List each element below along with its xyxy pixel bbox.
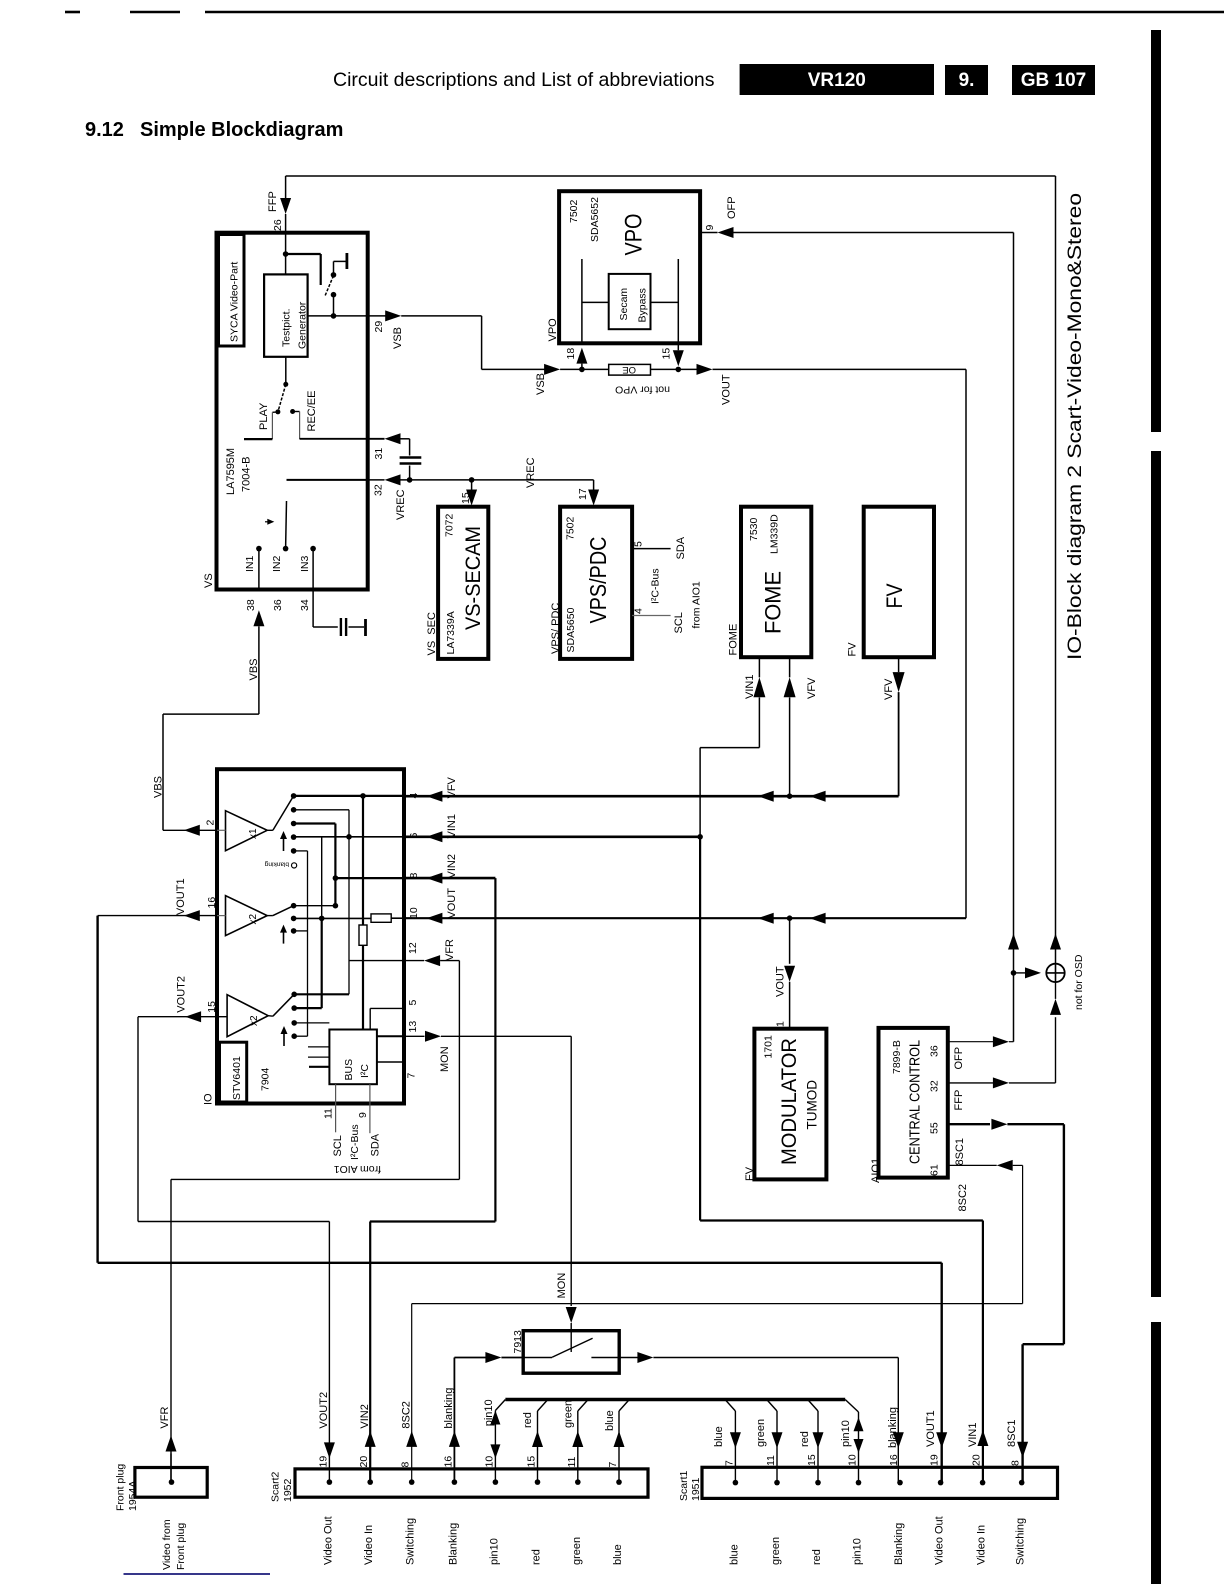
wire 8SC1 route [1007, 1124, 1064, 1482]
arrow VOUT1 down scart1 [936, 1432, 947, 1448]
wire x2l input [217, 1016, 227, 1018]
svg-text:green: green [563, 1400, 575, 1428]
contact d8 [291, 928, 297, 934]
label PLAY [258, 402, 270, 430]
node pin15-VOUT [676, 367, 682, 373]
svg-text:34: 34 [299, 599, 311, 611]
svg-text:x2: x2 [249, 1015, 260, 1026]
svg-text:19: 19 [929, 1454, 941, 1466]
wire VOUT1 route [98, 916, 942, 1483]
svg-text:20: 20 [971, 1454, 983, 1466]
scart2 pin 7 node [616, 1479, 622, 1485]
label 18 [565, 348, 577, 360]
svg-text:15: 15 [206, 1001, 218, 1013]
wire contact to VSB row [333, 295, 335, 316]
svg-text:36: 36 [929, 1045, 941, 1057]
svg-text:pin10: pin10 [840, 1420, 852, 1447]
node VOUT-MOD branch [787, 915, 793, 921]
label MON pin13 [439, 1046, 451, 1072]
wire vertical-A [362, 796, 364, 925]
wire VPS pin 4 SCL stub [632, 615, 671, 617]
svg-text:SYCA Video-Part: SYCA Video-Part [229, 262, 241, 342]
svg-text:VREC: VREC [525, 457, 537, 488]
wire FFP link [1009, 1017, 1056, 1083]
label 8SC2 cc [957, 1184, 969, 1212]
svg-text:8: 8 [1010, 1460, 1022, 1466]
svg-text:Generator: Generator [297, 301, 309, 349]
svg-text:15: 15 [526, 1456, 538, 1468]
bus rgb-pin10 line [505, 1398, 845, 1402]
scart1 pin 11 node [774, 1480, 780, 1486]
svg-text:1: 1 [775, 1021, 787, 1027]
SYCA tag box [219, 235, 245, 347]
wire cap to bar [349, 626, 365, 628]
wire IN2 to pin32 row [287, 479, 368, 481]
label scart1 pin 20 [971, 1454, 983, 1466]
svg-text:VFR: VFR [444, 939, 456, 961]
label VFV io [446, 776, 458, 798]
arrow VFV at FOME [758, 791, 774, 802]
svg-text:OFP: OFP [953, 1047, 965, 1070]
bus diag scart1 pin10 [845, 1400, 858, 1413]
label AIO1 outside [870, 1158, 882, 1183]
node d4-pin10 [319, 916, 325, 922]
svg-text:1951: 1951 [690, 1477, 702, 1501]
svg-text:VFR: VFR [159, 1407, 171, 1429]
wire pin36 to OFP [1009, 1041, 1014, 1043]
node d3-pin8 [333, 875, 339, 881]
label x2 [248, 914, 259, 925]
svg-text:11: 11 [765, 1455, 777, 1466]
switch contact upper [331, 272, 337, 278]
arrow pin55 out [991, 1119, 1007, 1130]
arrow blanking up scart2 [449, 1431, 460, 1447]
svg-text:green: green [755, 1419, 767, 1447]
svg-text:blanking: blanking [264, 861, 289, 868]
wire pin16 row [98, 915, 217, 917]
label VOUT1 io [175, 878, 187, 915]
wire vertical-A lower [362, 945, 364, 1029]
arrow MON down [566, 1307, 577, 1323]
label 10 io [408, 907, 420, 919]
amplifier x2 [226, 896, 268, 936]
wire FFP to adder [1055, 982, 1057, 999]
header badge 9. [945, 65, 988, 95]
label IN3 [299, 556, 311, 573]
label VOUT2 io [176, 976, 188, 1013]
label OE [622, 364, 636, 375]
arrow scart1 red down [813, 1432, 824, 1448]
svg-text:32: 32 [373, 484, 385, 496]
svg-text:SDA: SDA [675, 536, 687, 559]
svg-text:13: 13 [407, 1021, 419, 1033]
svg-text:Video Out: Video Out [934, 1516, 946, 1565]
svg-text:red: red [522, 1412, 534, 1428]
label scart2 pin 16 [442, 1456, 454, 1468]
label scart2 pin 8 [400, 1462, 412, 1468]
scart1 pin 15 node [815, 1480, 821, 1486]
label VS-SECAM big [461, 526, 485, 630]
label VS [203, 573, 215, 588]
label Video from [161, 1519, 173, 1570]
svg-text:Switching: Switching [405, 1518, 417, 1565]
svg-text:11: 11 [566, 1456, 578, 1467]
svg-text:11: 11 [323, 1108, 335, 1119]
arrow FFP link up [1050, 999, 1061, 1015]
svg-text:red: red [799, 1431, 811, 1447]
wire blanking out [619, 1357, 639, 1359]
label VIN1 fome [744, 675, 756, 699]
svg-text:8SC1: 8SC1 [1006, 1419, 1018, 1447]
svg-text:VOUT2: VOUT2 [318, 1392, 330, 1429]
wire VIN2 vertical [494, 878, 496, 1221]
wire VOUT vertical [965, 369, 967, 918]
adder circle not for OSD [1046, 964, 1064, 982]
svg-text:16: 16 [888, 1454, 900, 1466]
svg-text:8SC2: 8SC2 [401, 1401, 413, 1429]
svg-text:VIN2: VIN2 [446, 854, 458, 878]
svg-text:32: 32 [929, 1080, 941, 1092]
svg-text:7: 7 [607, 1462, 619, 1468]
svg-text:16: 16 [442, 1456, 454, 1468]
svg-text:20: 20 [358, 1456, 370, 1468]
wire d2 branch [294, 810, 349, 995]
arrow FV VFV down [893, 672, 905, 692]
label red s2 [522, 1412, 534, 1428]
arrow VFV into pin4 [426, 791, 442, 802]
svg-text:VOUT: VOUT [446, 888, 458, 919]
label VSB [392, 327, 404, 349]
vertical title IO-Block diagram 2 Scart-Video-Mono&Stereo [1065, 193, 1086, 660]
svg-text:7904: 7904 [260, 1067, 272, 1091]
label 13 io [407, 1021, 419, 1033]
svg-text:2: 2 [205, 820, 217, 826]
contact d4 [291, 834, 297, 840]
svg-text:18: 18 [565, 348, 577, 360]
wire pin12 stub [404, 960, 424, 962]
svg-text:Video Out: Video Out [322, 1516, 334, 1565]
wire VSB approach [482, 368, 547, 370]
arrow pin 2 [184, 825, 200, 836]
svg-text:AIO1: AIO1 [870, 1158, 882, 1183]
box OE [609, 364, 651, 375]
svg-text:SDA: SDA [370, 1133, 382, 1156]
label scart1 pin 19 [929, 1454, 941, 1466]
label scart1 fn Video Out [934, 1516, 946, 1565]
node pin18-VSB [579, 367, 585, 373]
arrow scart1 pin10 up [854, 1417, 864, 1431]
blue scan line [124, 1573, 271, 1575]
svg-text:FOME: FOME [728, 624, 740, 656]
label scart1 fn blue [728, 1544, 740, 1565]
label 9 io [357, 1112, 369, 1118]
wire VBS from pin38 [163, 626, 259, 830]
label VFR io [444, 939, 456, 961]
wire VOUT row top [713, 368, 967, 370]
svg-text:VR120: VR120 [808, 70, 866, 91]
label 7530 [748, 517, 760, 541]
arrow scart2 blue up [614, 1431, 625, 1447]
svg-text:VS-SECAM: VS-SECAM [461, 526, 485, 630]
wire blanking gap [501, 1357, 523, 1359]
label not for OSD [1073, 954, 1085, 1010]
arrow VOUT into pin10 [426, 913, 442, 924]
wire e3 row [294, 1022, 329, 1024]
arrow VIN1 up scart1 [977, 1430, 988, 1446]
wire FV to VFV row [898, 692, 900, 796]
scart1 pin 20 node [980, 1480, 986, 1486]
label LA7339A [445, 611, 457, 654]
svg-text:VOUT: VOUT [721, 374, 733, 405]
svg-text:pin10: pin10 [852, 1538, 864, 1565]
label OFP top [726, 196, 738, 219]
wire PLAY bracket [244, 412, 278, 439]
label 55 [929, 1122, 941, 1134]
label VOUT1 s1 [925, 1410, 937, 1447]
svg-text:VIN1: VIN1 [967, 1423, 979, 1447]
label 8SC2 s2 [401, 1401, 413, 1429]
svg-text:pin10: pin10 [483, 1399, 495, 1426]
label 38 [245, 599, 257, 611]
wire VFV link [789, 697, 791, 796]
arrow VIN2 up scart2 [365, 1431, 376, 1447]
wire junction to switch pole [286, 254, 321, 285]
arrow pin 18 up [576, 348, 587, 364]
contact e4 [291, 1033, 297, 1039]
svg-text:VFV: VFV [883, 678, 895, 700]
block VPS/PDC outline [560, 507, 632, 659]
label 7502 VPO [568, 199, 580, 223]
block IO STV6401 outline [217, 769, 404, 1103]
svg-text:LA7339A: LA7339A [445, 611, 457, 654]
svg-text:8SC1: 8SC1 [954, 1138, 966, 1166]
scart2 pin 19 node [327, 1479, 333, 1485]
svg-text:26: 26 [272, 219, 284, 231]
header title [333, 69, 715, 91]
label FFP cc [953, 1090, 965, 1111]
svg-text:IN3: IN3 [299, 556, 311, 573]
svg-text:SDA5650: SDA5650 [565, 607, 577, 652]
label MODULATOR big [777, 1038, 801, 1165]
label FV mod outside [744, 1166, 756, 1181]
scart1 pin 19 node [938, 1480, 944, 1486]
bus diag scart1 blue [725, 1400, 735, 1411]
svg-text:VIN1: VIN1 [744, 675, 756, 699]
node play pole [283, 382, 288, 387]
label blue s1 [713, 1426, 725, 1447]
wire pin15 row [138, 1016, 217, 1018]
svg-text:VS: VS [203, 573, 215, 588]
label x1 [248, 828, 259, 839]
wire testgen to play pole [285, 357, 287, 385]
VPO internal right [651, 259, 679, 343]
wire SDA drop [369, 1084, 371, 1133]
label scart2 fn Blanking [447, 1523, 459, 1565]
arrow VIN2 into pin8 [426, 873, 442, 884]
svg-text:10: 10 [847, 1454, 859, 1466]
svg-text:15: 15 [661, 348, 673, 360]
wire OFP row [734, 232, 1014, 234]
wire VFR route [171, 961, 459, 1483]
label scart1 pin 10 [847, 1454, 859, 1466]
label 5 vps [633, 541, 645, 547]
svg-text:Scart1: Scart1 [678, 1470, 690, 1501]
svg-text:blanking: blanking [443, 1388, 455, 1429]
svg-text:FFP: FFP [267, 191, 279, 212]
svg-text:VBS: VBS [248, 658, 260, 680]
wire VIN1 route lower [700, 837, 983, 1483]
block VPO outline [559, 191, 700, 343]
wire d3 branch [294, 824, 336, 906]
svg-text:BUS: BUS [343, 1059, 355, 1081]
svg-text:VSB: VSB [535, 373, 547, 395]
svg-text:green: green [571, 1537, 583, 1565]
label LA7595M [225, 448, 237, 495]
page edge bar right segment 1 [1151, 30, 1161, 432]
svg-text:Blanking: Blanking [447, 1523, 459, 1565]
node IN2 [283, 546, 289, 552]
svg-text:31: 31 [373, 448, 385, 460]
arrow scart2 green up [572, 1431, 583, 1447]
arrow pin 15 down [673, 350, 684, 366]
label VFR frontplug [159, 1407, 171, 1429]
wire junction to testgen [285, 254, 287, 274]
wire pin 32 stub [368, 479, 385, 481]
wire MOD pin1 drop [789, 918, 791, 964]
label pin10 s2 [483, 1399, 495, 1426]
wire IN1 to pin 38 [258, 549, 260, 590]
label VPO outside [547, 318, 559, 342]
switch blade top [325, 275, 334, 296]
svg-text:not for OSD: not for OSD [1073, 954, 1085, 1010]
arrow VOUT right [697, 364, 713, 375]
wire pin7 stub [377, 1061, 404, 1063]
label scart2 pin 15 [526, 1456, 538, 1468]
svg-text:8: 8 [408, 873, 420, 879]
label 12 io [407, 942, 419, 954]
svg-text:VPO: VPO [547, 318, 559, 342]
contact d7 [291, 916, 297, 922]
svg-text:12: 12 [407, 942, 419, 954]
wire SCL drop [335, 1084, 337, 1132]
label 8 io [408, 873, 420, 879]
label 6 io [408, 833, 420, 839]
blade x1 [273, 796, 294, 830]
contact d1 [291, 793, 297, 799]
svg-text:9.: 9. [959, 70, 975, 91]
wire pin 9 stub [700, 232, 717, 234]
label I2C [359, 1064, 371, 1078]
svg-text:Front plug: Front plug [115, 1464, 127, 1511]
arrow scart2 red up [532, 1431, 543, 1447]
arrow VFR up [166, 1436, 177, 1452]
label FV outside [847, 642, 859, 657]
label I2C-Bus vps [650, 568, 662, 604]
svg-text:LM339D: LM339D [769, 514, 781, 554]
7913 input row [523, 1357, 552, 1359]
wire scart1 red [817, 1411, 819, 1483]
wire scart2 pin10 [494, 1411, 496, 1483]
label scart2 fn Video In [363, 1525, 375, 1565]
contact d3 [291, 821, 297, 827]
svg-text:PLAY: PLAY [258, 402, 270, 430]
node vertical-A top [360, 793, 366, 799]
svg-text:IO: IO [203, 1093, 215, 1105]
label VOUT io [446, 888, 458, 919]
label VPS/PDC outside [550, 603, 562, 654]
label IN2 [271, 556, 283, 573]
label scart2 pin 20 [358, 1456, 370, 1468]
label VBS upper [248, 658, 260, 680]
wire VFV row [404, 795, 899, 798]
svg-text:7502: 7502 [568, 199, 580, 223]
wire FFP vertical right [1055, 176, 1057, 964]
wire VIN1 row [404, 835, 700, 838]
svg-text:Switching: Switching [1015, 1518, 1027, 1565]
arrow blanking into 7913 [485, 1352, 501, 1363]
resistor R-A [359, 925, 367, 945]
bus diag scart2 blue [619, 1400, 629, 1411]
label blanking s2 [443, 1388, 455, 1429]
wire FOME VFV pin [789, 657, 791, 677]
wire pin12 inner [349, 960, 404, 962]
amplifier x2 lower [227, 995, 268, 1037]
label LM339D [769, 514, 781, 554]
label VOUT mod [775, 966, 787, 997]
node VFV-FOME [787, 793, 793, 799]
label red s1 [799, 1431, 811, 1447]
svg-text:VPS/PDC: VPS/PDC [585, 537, 611, 624]
svg-text:1701: 1701 [763, 1035, 775, 1059]
contact e1 [291, 992, 297, 998]
header badge GB 107 [1012, 65, 1095, 95]
svg-text:blanking: blanking [887, 1407, 899, 1448]
terminal bar IN3 [364, 619, 367, 636]
label 32 [929, 1080, 941, 1092]
svg-text:1954A: 1954A [127, 1481, 139, 1511]
wire x2l out stub [268, 1015, 273, 1018]
svg-text:IO-Block diagram 2 Scart-Video: IO-Block diagram 2 Scart-Video-Mono&Ster… [1065, 193, 1086, 660]
wire OFP to adder [1014, 972, 1028, 974]
label from AIO1 vps [691, 581, 703, 628]
label green s1 [755, 1419, 767, 1447]
label scart1 pin 15 [806, 1454, 818, 1466]
label I2C-Bus io [349, 1124, 361, 1160]
svg-text:VREC: VREC [395, 489, 407, 520]
switch blade PLAY [278, 384, 286, 412]
bus diag scart1 green [767, 1400, 777, 1411]
arrow VSB right [544, 364, 560, 375]
IO tag box [220, 1042, 247, 1102]
wire pin 26 into block [285, 214, 287, 254]
svg-text:SCL: SCL [673, 612, 685, 633]
svg-text:OE: OE [622, 364, 636, 375]
node IN3 [310, 546, 316, 552]
svg-text:61: 61 [929, 1164, 941, 1176]
front plug node [169, 1479, 175, 1485]
wire VSB to corner [401, 316, 481, 370]
svg-text:Front plug: Front plug [175, 1523, 187, 1570]
label Front plug 2 [175, 1523, 187, 1570]
scart1 pin 8 node [1019, 1480, 1025, 1486]
capacitor C-in3 plates [341, 618, 346, 636]
wire pin36 row [948, 1041, 994, 1043]
wire pin 29 VSB row [308, 315, 388, 317]
label 26 [272, 219, 284, 231]
svg-text:STV6401: STV6401 [231, 1056, 243, 1100]
label 31 [373, 448, 385, 460]
block SYCA LA7595M outline [217, 233, 368, 590]
